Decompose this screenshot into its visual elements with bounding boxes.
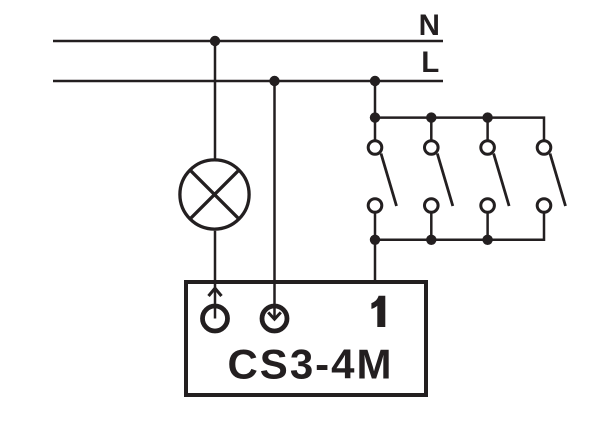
- svg-text:N: N: [419, 9, 440, 42]
- svg-text:L: L: [421, 46, 439, 79]
- svg-text:CS3-4M: CS3-4M: [227, 340, 393, 387]
